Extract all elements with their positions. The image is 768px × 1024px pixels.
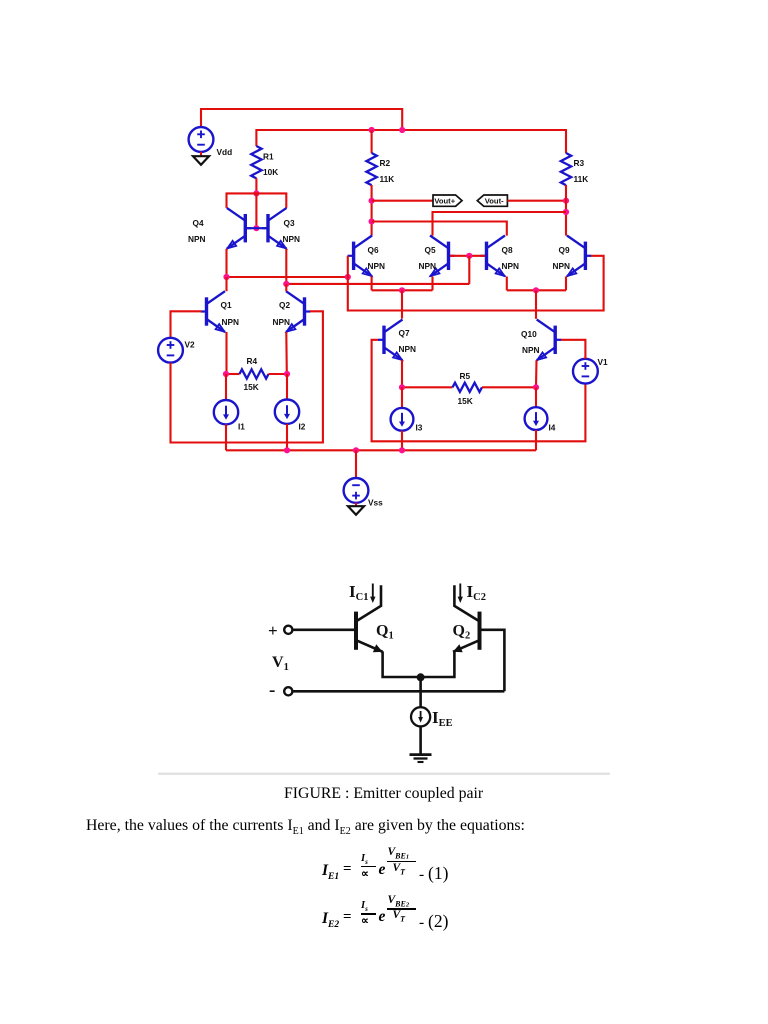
- transistor Q10: [554, 326, 557, 354]
- svg-text:I3: I3: [416, 423, 423, 433]
- voltage source V2: [158, 338, 183, 363]
- wire I3 bottom stem: [401, 431, 403, 451]
- svg-text:Vout-: Vout-: [485, 197, 504, 206]
- ground below Vdd: [193, 156, 209, 165]
- svg-text:Q2: Q2: [453, 623, 471, 642]
- figure wire to IEE: [419, 677, 422, 707]
- voltage source Vdd: [189, 127, 214, 152]
- node A right: [345, 274, 351, 280]
- wire Q4-Q3 collector rail: [227, 193, 287, 208]
- caption FIGURE : Emitter coupled pair: [284, 785, 483, 803]
- resistor R4: [226, 373, 240, 375]
- wire I1 top stem: [225, 374, 227, 400]
- figure wire Q2 base feedback: [480, 630, 505, 692]
- equation 1: [322, 862, 339, 882]
- transistor Q6: [352, 242, 355, 270]
- wire R3 bottom to Q9 collector: [565, 185, 567, 236]
- scan artifact faint line: [158, 773, 610, 775]
- wire Q9 emitter stem: [565, 277, 567, 291]
- svg-text:I4: I4: [549, 423, 556, 433]
- node I3 bottom: [399, 447, 405, 453]
- node W4 tap: [369, 218, 375, 224]
- svg-text:Q1: Q1: [221, 300, 232, 310]
- figure wire Q2 collector stub: [454, 585, 479, 621]
- wire left emitter rail: [372, 289, 433, 291]
- figure ground: [410, 753, 432, 756]
- wire Q2 emitter stem: [285, 332, 288, 374]
- transistor Q2: [303, 297, 306, 325]
- voltage source Vss: [344, 478, 369, 503]
- wire I1 bottom stem: [225, 424, 227, 450]
- wire node-A rail: [227, 276, 348, 278]
- wire bottom Vss rail: [226, 449, 536, 451]
- wire R2 top stem: [371, 130, 373, 153]
- node Vout+ tap: [369, 198, 375, 204]
- node R4 left: [223, 371, 229, 377]
- wire Q7 base down to bottom rail: [372, 340, 586, 442]
- svg-text:Q10: Q10: [521, 329, 537, 339]
- svg-text:I2: I2: [299, 422, 306, 432]
- current source I3: [391, 408, 414, 431]
- svg-text:NPN: NPN: [553, 261, 571, 271]
- wire Vdd supply rail: [256, 130, 566, 153]
- svg-text:NPN: NPN: [502, 261, 520, 271]
- svg-text:R4: R4: [247, 356, 258, 366]
- svg-text:V1: V1: [272, 654, 289, 673]
- wire I4 bottom stem: [535, 430, 537, 450]
- svg-text:NPN: NPN: [188, 234, 206, 244]
- wire Q5 collector to R3: [433, 212, 567, 236]
- wire Q10 base to V1: [561, 340, 585, 359]
- node A left: [223, 274, 229, 280]
- figure Q1 emitter: [356, 640, 383, 652]
- svg-text:Q8: Q8: [502, 245, 513, 255]
- wire Vss stem: [355, 450, 357, 478]
- voltage source V1: [573, 359, 598, 384]
- wire Vout- to R3: [507, 200, 566, 202]
- current source I1: [214, 400, 238, 424]
- node R5 right: [533, 384, 539, 390]
- svg-text:Q3: Q3: [284, 218, 295, 228]
- wire Q1 emitter stem: [225, 332, 227, 374]
- svg-text:Q5: Q5: [425, 245, 436, 255]
- svg-text:Vss: Vss: [368, 498, 383, 508]
- wire Q1 collector stem: [225, 277, 227, 291]
- svg-text:Q7: Q7: [399, 328, 410, 338]
- wire Vss to ground: [355, 503, 357, 506]
- node left emitter rail: [399, 287, 405, 293]
- ground below Vss: [348, 506, 364, 515]
- node rail2-R2: [369, 127, 375, 133]
- svg-text:Q1: Q1: [376, 623, 394, 642]
- svg-text:NPN: NPN: [368, 261, 386, 271]
- wire I4 top stem: [535, 387, 537, 407]
- wire Q5-Q8 base link: [450, 255, 485, 257]
- svg-text:Vdd: Vdd: [217, 147, 233, 157]
- svg-text:15K: 15K: [244, 382, 259, 392]
- current source I2: [275, 400, 299, 424]
- svg-text:V1: V1: [598, 357, 609, 367]
- svg-text:NPN: NPN: [522, 345, 540, 355]
- resistor R3: [561, 153, 571, 185]
- svg-text:11K: 11K: [380, 174, 395, 184]
- node R4 right: [284, 371, 290, 377]
- wire Q10 emitter stem: [535, 360, 538, 387]
- wire V2 to Q1 base: [171, 311, 202, 337]
- figure wire Q1 collector stub: [356, 585, 381, 621]
- figure wire Q1 base: [293, 628, 357, 631]
- svg-text:-: -: [269, 680, 275, 701]
- wire Q8 emitter stem: [506, 277, 508, 291]
- current source I4: [525, 407, 548, 430]
- wire I3 top stem: [401, 387, 403, 408]
- figure node emitter junction: [417, 673, 425, 681]
- wire Q6 emitter stem: [371, 277, 373, 291]
- transistor Q3: [266, 214, 269, 242]
- node W3 tap: [563, 209, 569, 215]
- node R5 left: [399, 384, 405, 390]
- figure arrow IC1: [372, 584, 374, 599]
- figure Q2 emitter: [453, 640, 480, 652]
- paragraph equations intro: [86, 817, 525, 837]
- node Q4-Q3 base junction: [253, 225, 259, 231]
- svg-text:IC2: IC2: [467, 582, 486, 603]
- wire Q2 collector stem: [285, 284, 287, 291]
- figure arrow IC2: [459, 584, 461, 599]
- transistor Q7: [382, 326, 385, 354]
- wire right emitter rail: [507, 289, 566, 291]
- node Vss tap: [353, 447, 359, 453]
- svg-text:Vout+: Vout+: [434, 197, 455, 206]
- svg-text:11K: 11K: [574, 174, 589, 184]
- svg-text:10K: 10K: [263, 167, 278, 177]
- wire Q6 base to node A and Q9 base: [348, 256, 604, 311]
- equation 2: [322, 910, 339, 930]
- svg-text:I1: I1: [238, 422, 245, 432]
- flag Vout-: [477, 195, 507, 206]
- transistor Q1: [205, 297, 208, 325]
- svg-text:NPN: NPN: [283, 234, 301, 244]
- svg-text:R1: R1: [263, 152, 274, 162]
- wire V2 bottom to Q2 base: [171, 311, 323, 442]
- wire R2 node to Q8 collector: [372, 222, 507, 236]
- resistor R5: [402, 386, 453, 388]
- wire Q3 emitter stem: [285, 249, 287, 284]
- wire Q4-Q3 base link: [245, 227, 268, 229]
- figure wire minus rail: [293, 690, 505, 693]
- wire Q5 emitter stem: [431, 277, 433, 291]
- figure transistor Q1 bar: [354, 612, 358, 650]
- svg-text:V2: V2: [185, 340, 196, 350]
- node R1 bottom: [253, 190, 259, 196]
- svg-text:Q6: Q6: [368, 245, 379, 255]
- wire R1 bottom stem: [255, 178, 257, 193]
- node Q5-Q8 base junction: [466, 253, 472, 259]
- wire Q10 collector stem: [535, 290, 537, 319]
- svg-text:R5: R5: [460, 371, 471, 381]
- transistor Q5: [447, 242, 450, 270]
- wire I2 bottom stem: [286, 424, 288, 450]
- svg-text:Q4: Q4: [193, 218, 204, 228]
- figure transistor Q2 bar: [478, 612, 482, 650]
- svg-text:NPN: NPN: [419, 261, 437, 271]
- wire I2 top stem: [286, 374, 288, 400]
- wire base junction to node B: [468, 256, 470, 284]
- wire top Vdd rail: [201, 109, 402, 130]
- node B: [283, 281, 289, 287]
- svg-text:NPN: NPN: [222, 317, 240, 327]
- wire node-B rail: [286, 283, 469, 285]
- wire bases stem: [255, 193, 257, 228]
- wire Vdd to ground: [200, 152, 202, 156]
- svg-text:IEE: IEE: [432, 708, 453, 729]
- figure emitter joining wire: [383, 651, 455, 677]
- svg-text:R3: R3: [574, 158, 585, 168]
- svg-text:R2: R2: [380, 158, 391, 168]
- wire Q4 emitter stem: [225, 249, 227, 277]
- node rail2-rail1: [399, 127, 405, 133]
- transistor Q8: [485, 242, 488, 270]
- svg-text:Q2: Q2: [279, 300, 290, 310]
- node I2 bottom: [284, 447, 290, 453]
- wire Q7 emitter stem: [401, 360, 403, 387]
- svg-text:15K: 15K: [458, 396, 473, 406]
- transistor Q9: [584, 242, 587, 270]
- flag Vout+: [433, 195, 462, 206]
- svg-text:IC1: IC1: [349, 582, 368, 603]
- wire Q7 collector stem: [401, 290, 403, 318]
- resistor R2: [366, 153, 376, 185]
- svg-text:NPN: NPN: [273, 317, 291, 327]
- node Vout- tap: [563, 198, 569, 204]
- svg-text:+: +: [268, 621, 278, 640]
- node right emitter rail: [533, 287, 539, 293]
- svg-text:Q9: Q9: [559, 245, 570, 255]
- wire R2 bottom to Q6 collector: [371, 185, 373, 236]
- wire to Vout+ flag: [372, 200, 433, 202]
- svg-text:NPN: NPN: [399, 344, 417, 354]
- current source IEE: [411, 707, 430, 726]
- resistor R1: [251, 146, 261, 178]
- transistor Q4: [244, 214, 247, 242]
- figure wire IEE to ground: [419, 726, 422, 754]
